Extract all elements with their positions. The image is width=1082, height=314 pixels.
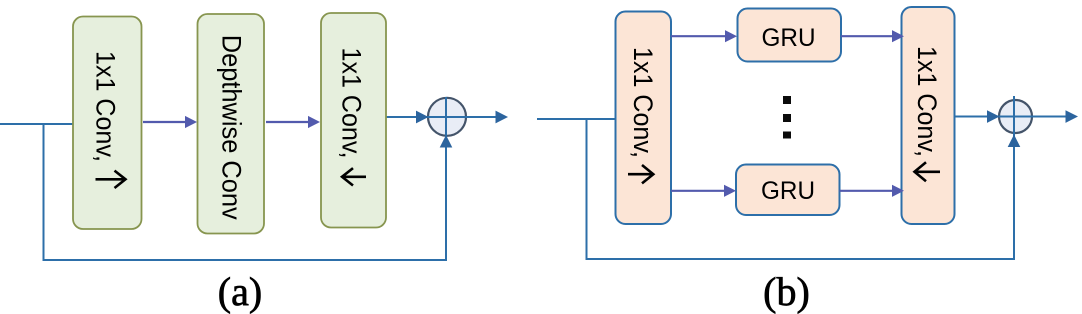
svg-text:(b): (b): [763, 269, 810, 314]
svg-text:1x1 Conv,: 1x1 Conv,: [912, 46, 942, 157]
svg-text:Depthwise Conv: Depthwise Conv: [217, 35, 247, 220]
svg-text:GRU: GRU: [761, 177, 815, 205]
svg-text:(a): (a): [218, 269, 262, 314]
svg-text:1x1 Conv,: 1x1 Conv,: [91, 51, 121, 162]
svg-text:1x1 Conv,: 1x1 Conv,: [628, 47, 658, 158]
svg-text:GRU: GRU: [762, 24, 816, 52]
svg-text:1x1 Conv,: 1x1 Conv,: [337, 48, 367, 159]
